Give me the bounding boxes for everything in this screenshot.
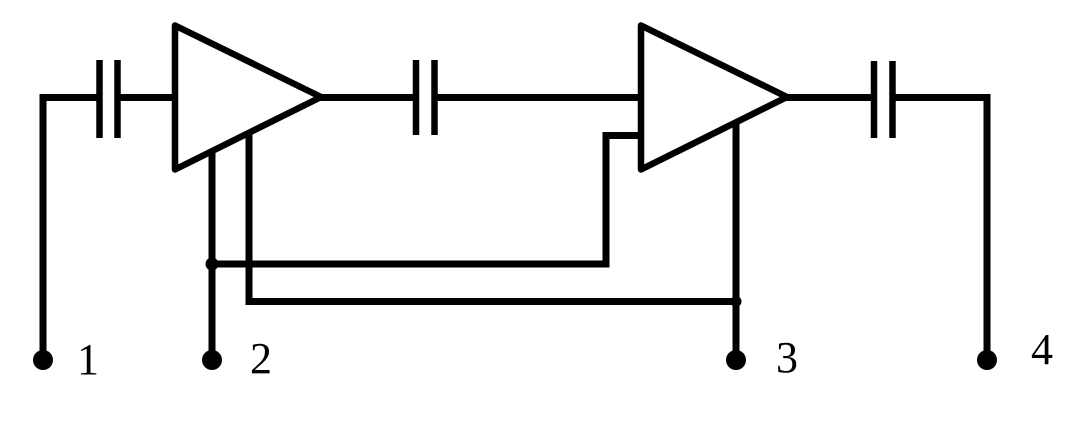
- svg-text:4: 4: [1031, 325, 1053, 374]
- terminal dot 1: [33, 350, 53, 370]
- svg-text:2: 2: [250, 334, 272, 383]
- terminal dot 2: [202, 350, 222, 370]
- terminal dot 3: [726, 350, 746, 370]
- wire U1 pin to feedback node 3: [249, 131, 736, 302]
- capacitor C2 right plate: [431, 60, 438, 135]
- op-amp U2: [641, 26, 787, 170]
- wire feedback node 2 to U2 lower input: [212, 136, 640, 265]
- capacitor C1 right plate: [114, 60, 121, 138]
- capacitor C2 left plate: [413, 60, 420, 135]
- junction node on wire to terminal 3: [731, 296, 742, 307]
- wire U1 output to capacitor C2: [320, 94, 416, 101]
- wire U2 output to capacitor C3: [786, 94, 874, 101]
- wire C3 to terminal 4: [893, 98, 987, 361]
- wire terminal 1 to capacitor C1: [43, 98, 99, 361]
- capacitor C3 left plate: [871, 61, 878, 138]
- capacitor C3 right plate: [889, 61, 896, 138]
- wire U1 lower pin to terminal 2: [209, 150, 216, 360]
- capacitor C1 left plate: [96, 60, 103, 138]
- op-amp U1: [175, 26, 321, 170]
- terminal dot 4: [977, 350, 997, 370]
- svg-text:1: 1: [77, 335, 99, 384]
- junction node on wire to terminal 2: [206, 258, 219, 271]
- wire C1 to op-amp U1 input: [118, 94, 175, 101]
- wire U2 lower pin to terminal 3: [733, 122, 740, 360]
- wire C2 to op-amp U2 input: [435, 94, 641, 101]
- svg-text:3: 3: [776, 333, 798, 382]
